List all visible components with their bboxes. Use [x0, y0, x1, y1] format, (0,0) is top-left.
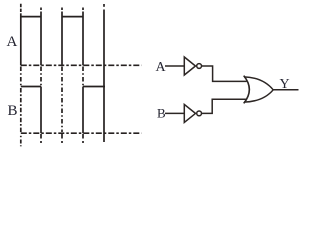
- svg-text:Y: Y: [280, 77, 290, 92]
- svg-text:B: B: [8, 103, 18, 119]
- svg-text:A: A: [156, 60, 167, 75]
- svg-text:B: B: [157, 105, 166, 120]
- svg-text:A: A: [7, 34, 18, 50]
